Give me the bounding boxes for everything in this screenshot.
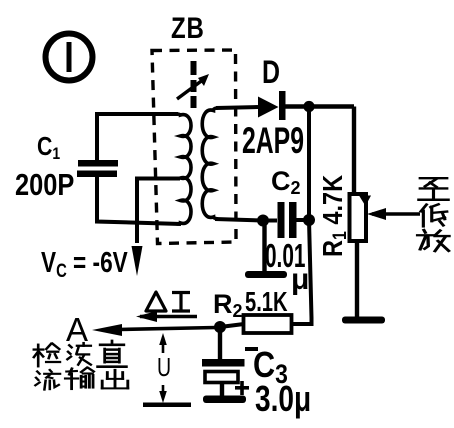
wire: corner down to R1 top — [352, 107, 356, 195]
wire: C1 bottom to primary bottom — [97, 177, 181, 224]
capacitor C1 — [77, 160, 118, 177]
transformer ZB adjustable core (dashed vertical) — [191, 61, 197, 108]
figure number badge (circled 1) — [46, 34, 93, 81]
svg-text:200P: 200P — [15, 168, 74, 203]
svg-text:2AP9: 2AP9 — [242, 119, 304, 161]
svg-text:U: U — [157, 352, 171, 381]
wire: C2 left node down to ground — [262, 220, 266, 272]
current arrow dI — [136, 311, 197, 322]
ground below R1 — [342, 317, 385, 324]
transformer ZB secondary winding (right) — [202, 108, 218, 219]
wire: C2 right node down to R2 right end — [292, 220, 312, 324]
wire: C2 right plate to right node — [296, 218, 309, 222]
svg-text:D: D — [262, 55, 280, 91]
voltage marker U: up arrow — [159, 333, 167, 353]
svg-text:3.0μ: 3.0μ — [255, 379, 311, 419]
wire: C1 top to primary top — [97, 114, 178, 160]
wire: diode cathode to right corner — [285, 104, 354, 108]
shield box (dashed) around transformer ZB — [152, 50, 236, 244]
node A junction dot — [214, 321, 226, 333]
label 至低放 (to audio amplifier) — [418, 178, 449, 251]
node dot left of C2 — [257, 215, 269, 227]
svg-text:VC = -6V: VC = -6V — [41, 245, 128, 281]
R1 top wiper mark — [359, 196, 371, 207]
wire: primary tap — [137, 179, 180, 244]
label Vc = -6V — [41, 245, 128, 281]
label 检波直流输出 (detected DC output) — [34, 341, 128, 390]
svg-text:ZB: ZB — [171, 10, 205, 44]
resistor R2 — [244, 315, 292, 333]
wire: junction down to C2 right node — [307, 107, 311, 221]
wire/arrow: output to A — [92, 324, 216, 336]
svg-text:R1 4.7K: R1 4.7K — [318, 175, 350, 257]
capacitor C3 (electrolytic) — [202, 359, 245, 396]
wire: C2 left node to left plate — [263, 219, 277, 223]
ground below C3 — [203, 396, 246, 404]
transformer ZB primary winding (left, with tap) — [176, 114, 191, 224]
wire: secondary bottom to C2 left node — [215, 219, 263, 221]
potentiometer R1 body — [350, 194, 367, 241]
node dot right of C2 — [303, 214, 315, 226]
label dI — [146, 292, 190, 311]
C3 minus sign — [245, 347, 258, 351]
wire: secondary top to diode anode — [216, 107, 258, 108]
arrow to -6V supply — [132, 246, 143, 276]
diode D — [258, 91, 286, 120]
voltage marker U: reference bar — [143, 403, 191, 408]
voltage marker U: down arrow — [159, 385, 167, 403]
node: diode output junction — [303, 101, 314, 112]
C3 plus sign — [235, 381, 249, 395]
svg-text:μ: μ — [291, 263, 309, 296]
wire: R1 bottom to ground — [355, 241, 359, 318]
svg-text:5.1K: 5.1K — [245, 287, 288, 318]
capacitor C2 — [278, 202, 297, 238]
transformer ZB tuning arrow — [177, 74, 209, 99]
R1 wiper arrow from 至低放 — [367, 208, 420, 220]
ground below C2 — [245, 271, 287, 278]
wire: junction to R2 left — [220, 324, 244, 327]
wire: junction down to C3 — [218, 327, 222, 360]
